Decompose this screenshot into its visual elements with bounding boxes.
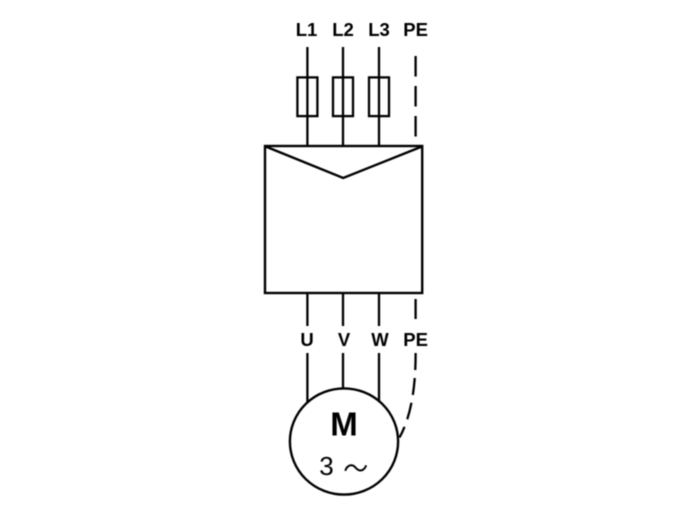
svg-text:L3: L3 — [368, 19, 390, 40]
wire PE curve to motor (dashed) — [400, 353, 416, 438]
svg-text:L2: L2 — [332, 19, 354, 40]
wire U to motor — [306, 353, 308, 402]
wire PE top (dashed) — [414, 56, 416, 137]
fuse F3 — [369, 77, 389, 116]
starter box flap — [266, 147, 422, 179]
svg-text:M: M — [330, 405, 358, 442]
svg-text:PE: PE — [403, 19, 428, 40]
wire PE dash below box — [414, 299, 416, 319]
wire W upper segment — [378, 293, 380, 326]
svg-text:U: U — [300, 329, 313, 350]
wire V to motor — [342, 353, 344, 389]
fuse F1 — [297, 77, 317, 116]
wire L3 — [378, 47, 380, 146]
svg-text:V: V — [338, 329, 351, 350]
wire U upper segment — [306, 293, 308, 326]
wire L2 — [342, 47, 344, 146]
svg-text:3: 3 — [319, 451, 333, 481]
svg-text:L1: L1 — [296, 19, 318, 40]
wire L1 — [306, 47, 308, 146]
motor M circle — [290, 388, 398, 494]
wire W to motor — [378, 353, 380, 401]
svg-text:W: W — [371, 329, 389, 350]
wire V upper segment — [342, 293, 344, 326]
fuse F2 — [333, 77, 353, 116]
svg-text:PE: PE — [403, 329, 428, 350]
motor tilde symbol — [345, 465, 366, 471]
starter box U1 — [265, 146, 422, 293]
